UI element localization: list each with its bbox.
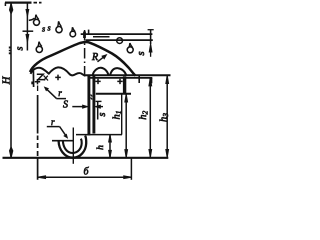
stem right wall <box>92 76 95 134</box>
scallop bump 1 <box>93 68 109 76</box>
main flange line <box>86 74 171 76</box>
curl outer arc <box>59 136 87 158</box>
r lower underline <box>47 126 60 128</box>
small dimension tick y31 <box>23 30 34 32</box>
plus mark C <box>95 79 100 84</box>
small dimension line at x27 <box>26 3 28 51</box>
dome base right tick <box>138 76 140 84</box>
r upper leader arrowhead <box>45 87 49 90</box>
svg-text:S: S <box>63 100 68 111</box>
bottom base line <box>3 157 169 159</box>
wavy scalloped edge (left) <box>31 67 86 75</box>
curl center line <box>72 128 74 164</box>
sheet end tick serif <box>148 29 154 31</box>
circle mark on sheet <box>117 38 123 44</box>
r upper underline <box>56 98 66 100</box>
sheet bottom line <box>86 39 153 41</box>
svg-text:r: r <box>51 117 55 127</box>
s-dim left segment <box>72 106 83 108</box>
svg-text:s: s <box>136 51 147 55</box>
curl inner arc <box>63 139 82 153</box>
r lower leader arrowhead <box>64 134 67 138</box>
short dimension x110 <box>109 135 111 157</box>
sheet top line <box>81 33 153 35</box>
droplet D5 <box>36 46 42 52</box>
svg-text:s: s <box>42 25 45 34</box>
droplet D1 with tail <box>29 18 35 20</box>
second flange line <box>89 77 152 79</box>
s arrow (top right) <box>149 44 152 52</box>
h1 dimension line <box>125 95 127 158</box>
small blob left of tick <box>31 82 33 85</box>
top extension line dashes <box>34 2 42 4</box>
h3 top arrow <box>166 76 169 84</box>
r lower leader <box>60 127 67 137</box>
svg-text:h2: h2 <box>138 111 150 120</box>
B left arrow <box>38 176 46 179</box>
left end serif of top line <box>4 3 6 6</box>
curl top line <box>52 140 73 142</box>
dome arc <box>30 42 136 76</box>
svg-text:r: r <box>58 88 62 98</box>
h1 top arrow <box>125 94 128 102</box>
H top arrow <box>10 4 13 14</box>
svg-text:s: s <box>97 112 108 116</box>
dimension line H vertical <box>10 3 12 157</box>
sheet left nub <box>88 30 90 34</box>
lower arrow of small dimension <box>26 35 29 42</box>
sheet middle bar <box>93 36 110 38</box>
upper arrow of small dimension <box>26 10 29 17</box>
top extension line of H <box>5 1 32 3</box>
r upper leader <box>46 88 57 98</box>
droplet D3 <box>70 31 76 37</box>
plus mark A <box>35 79 40 84</box>
h2 bottom arrow <box>149 150 152 158</box>
thin extension x121.7 <box>121 95 123 135</box>
flange bottom line right <box>96 93 131 95</box>
droplet D2 <box>56 27 62 33</box>
sheet end tick <box>150 30 152 44</box>
h3 bottom arrow <box>166 150 169 158</box>
B dimension line <box>38 176 132 178</box>
flange end nub <box>149 78 152 83</box>
plus mark D <box>117 79 122 84</box>
svg-text:h: h <box>96 145 106 150</box>
h1 bottom arrow <box>125 150 128 158</box>
cross mark at left base <box>44 76 48 81</box>
apex thick stub <box>83 32 86 39</box>
short dimension bottom arrow <box>109 150 112 157</box>
svg-text:s: s <box>15 46 26 50</box>
rim edge thick (right) <box>123 77 126 94</box>
H bottom arrow <box>10 147 13 157</box>
B right arrow <box>124 176 132 179</box>
short dimension top arrow <box>109 135 112 142</box>
scallop bump 2 <box>110 68 126 75</box>
h3 dimension line <box>166 75 168 156</box>
s arrow tail <box>150 52 152 57</box>
stem left wall <box>87 76 90 136</box>
svg-text:R: R <box>91 52 98 63</box>
svg-text:s: s <box>47 24 50 33</box>
s-dim right tail <box>100 106 103 108</box>
stem bottom tick line <box>76 134 122 136</box>
stem gap marks <box>91 95 93 100</box>
scribble mark at left base <box>37 74 46 79</box>
dome base left tick <box>32 71 34 88</box>
B left extension line <box>37 86 39 92</box>
h2 dimension line <box>149 78 151 157</box>
h2 top arrow <box>149 78 152 86</box>
droplet D4 <box>127 47 133 53</box>
R leader arrow <box>98 56 105 62</box>
B right extension line <box>130 159 132 180</box>
svg-text:h3: h3 <box>158 113 170 122</box>
s-dim right arrow <box>96 105 101 108</box>
short vertical dim <box>97 101 99 119</box>
H line small nubs <box>9 47 11 55</box>
svg-text:H: H <box>1 75 12 85</box>
s-dim left arrow <box>83 105 88 108</box>
plus mark B <box>55 75 61 81</box>
small tick near stem <box>96 100 102 102</box>
center line dash-dot <box>84 30 86 77</box>
